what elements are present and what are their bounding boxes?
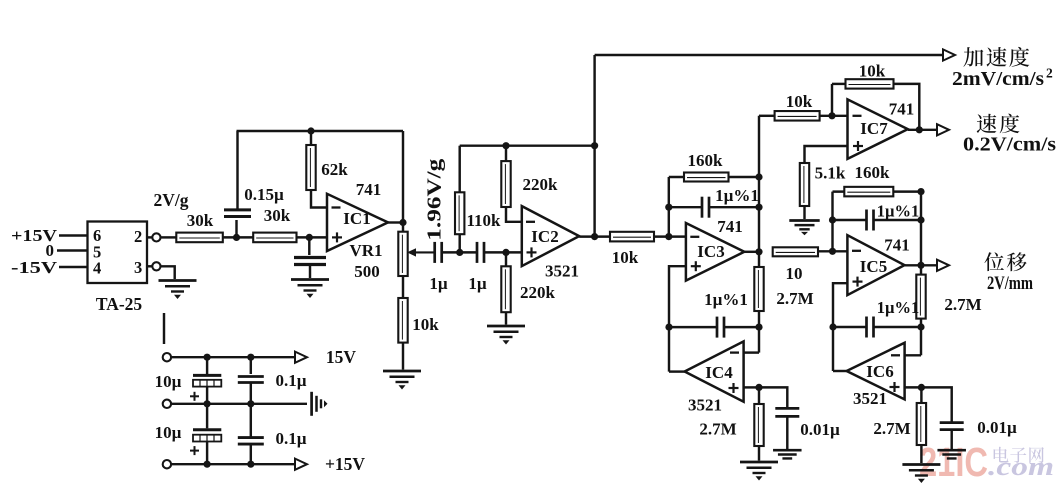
wire to 0.1u bottom bbox=[250, 404, 252, 438]
sensor TA-25 box bbox=[88, 222, 148, 284]
op-amp IC5 bbox=[847, 235, 904, 295]
svg-text:.com: .com bbox=[988, 452, 1054, 481]
node IC2 output junction bbox=[591, 233, 598, 240]
wire cap to ground bbox=[309, 265, 311, 279]
wire IC7 plus to 5.1k bbox=[805, 146, 848, 163]
ground below 2.7M IC6 bbox=[902, 463, 940, 466]
wire to 10u top bbox=[206, 357, 208, 374]
wire node B down to cap bbox=[308, 237, 310, 255]
wire node A up to cap 0.15u bbox=[235, 220, 237, 237]
svg-text:IC6: IC6 bbox=[866, 362, 893, 381]
wire node J to cap 0.01u bbox=[759, 387, 787, 409]
ground below 5.1k bbox=[789, 219, 819, 222]
wire 2.7M to IC4 minus corner bbox=[758, 311, 760, 353]
op-amp IC1 bbox=[327, 194, 388, 251]
acceleration output line bbox=[595, 54, 943, 56]
velocity arrow bbox=[937, 124, 949, 135]
feedback rail IC3 bbox=[669, 176, 759, 178]
vertical bus IC3 bbox=[758, 116, 760, 267]
node 0.1u top junction bbox=[247, 354, 254, 361]
node cap lower left IC5 bbox=[829, 323, 836, 330]
svg-text:+15V: +15V bbox=[325, 454, 365, 474]
svg-text:741: 741 bbox=[356, 180, 382, 199]
resistor 10k feedback IC7 bbox=[846, 79, 894, 88]
capacitor 1u pct lower IC5 bbox=[833, 326, 867, 328]
wire IC4 plus to node J bbox=[744, 386, 759, 388]
capacitor 1u pct upper IC5 bbox=[833, 219, 867, 221]
feedback rail IC5 bbox=[833, 190, 922, 192]
resistor 10k interstage bbox=[610, 232, 654, 242]
capacitor 0.01u IC4 bbox=[775, 407, 799, 410]
resistor 62k bbox=[306, 145, 315, 190]
plus supply arrow bbox=[295, 459, 307, 470]
svg-text:1µ: 1µ bbox=[468, 274, 487, 293]
ground sideways common bbox=[310, 392, 313, 416]
wire 110k to IC2 rail bbox=[458, 146, 460, 193]
svg-text:3: 3 bbox=[134, 258, 142, 277]
ground below 0.01u IC4 bbox=[773, 449, 802, 452]
svg-text:500: 500 bbox=[354, 262, 380, 281]
node IC7 output junction bbox=[916, 126, 923, 133]
svg-text:220k: 220k bbox=[523, 175, 559, 194]
minus supply arrow bbox=[295, 352, 307, 363]
op-amp IC6 bbox=[847, 343, 905, 400]
wire node K up to rail bbox=[831, 192, 833, 252]
wire IC6 minus to bus bbox=[905, 354, 921, 356]
IC5 minus sign bbox=[852, 250, 861, 252]
svg-text:4: 4 bbox=[93, 259, 101, 278]
wire IC2 output up to accel line bbox=[593, 55, 595, 237]
wire 30k to IC1 plus bbox=[297, 236, 328, 238]
wire +15V to pin 6 bbox=[59, 234, 88, 236]
wire 1u to 1u bbox=[442, 251, 477, 253]
node I junction bbox=[755, 324, 762, 331]
wire 10k to ground bbox=[402, 343, 404, 370]
resistor 220k lower bbox=[501, 266, 510, 312]
resistor 30k second bbox=[253, 233, 296, 243]
svg-text:2V/mm: 2V/mm bbox=[987, 273, 1033, 294]
svg-text:2.7M: 2.7M bbox=[944, 295, 981, 314]
IC3 plus sign bbox=[691, 265, 701, 267]
node rail right IC3 bbox=[755, 173, 762, 180]
IC7 plus sign bbox=[853, 145, 863, 147]
svg-text:160k: 160k bbox=[855, 163, 891, 182]
capacitor 0.15u bbox=[224, 208, 251, 211]
wire rail to 220k upper bbox=[505, 146, 507, 161]
capacitor 0.1u bottom bbox=[238, 436, 264, 439]
wire 10k feedback to output bbox=[894, 84, 920, 130]
wire rail to 62k bbox=[310, 131, 312, 145]
terminal pin 2 bbox=[152, 233, 160, 241]
svg-text:10k: 10k bbox=[859, 62, 886, 81]
wire 220k to ground bbox=[505, 312, 507, 324]
wire 0.1u bottom to plus rail bbox=[250, 444, 252, 464]
node B junction bbox=[306, 234, 313, 241]
wire 10u top to mid rail bbox=[206, 387, 208, 404]
IC6 plus sign bbox=[890, 386, 900, 388]
wire 220k upper to IC2 minus bbox=[506, 207, 522, 222]
wire IC4 minus to bus bbox=[744, 351, 759, 353]
svg-text:741: 741 bbox=[717, 217, 743, 236]
svg-text:0.1µ: 0.1µ bbox=[275, 371, 306, 390]
svg-text:0.01µ: 0.01µ bbox=[800, 420, 840, 439]
wire IC6 output to loop bbox=[833, 370, 847, 372]
node H junction bbox=[755, 248, 762, 255]
svg-text:741: 741 bbox=[889, 100, 915, 119]
node rail 220k junction bbox=[502, 142, 509, 149]
wire 62k to IC1 minus bbox=[311, 190, 327, 208]
node mid 0.1u junction bbox=[247, 400, 254, 407]
svg-text:30k: 30k bbox=[187, 211, 214, 230]
svg-text:-15V: -15V bbox=[11, 258, 58, 277]
node G junction bbox=[665, 233, 672, 240]
terminal minus supply bbox=[163, 353, 171, 361]
IC2 minus sign bbox=[526, 221, 535, 223]
resistor 2.7M lower IC6 bbox=[920, 387, 922, 403]
resistor 160k IC5 bbox=[844, 187, 893, 197]
wire pin3 to terminal bbox=[147, 265, 152, 267]
op-amp IC7 bbox=[848, 99, 908, 158]
label jiasudu bbox=[963, 47, 983, 67]
svg-text:2: 2 bbox=[134, 227, 142, 246]
wire node G up to rail bbox=[668, 177, 670, 237]
IC4 minus sign bbox=[730, 351, 739, 353]
resistor 220k upper bbox=[501, 161, 510, 207]
svg-text:IC7: IC7 bbox=[860, 119, 888, 138]
wire output to VR1 bbox=[402, 223, 404, 232]
node plus rail 10u junction bbox=[204, 461, 211, 468]
svg-text:IC3: IC3 bbox=[697, 242, 724, 261]
wire 10u bottom to plus rail bbox=[206, 442, 208, 465]
potentiometer VR1 bbox=[398, 232, 407, 276]
ground below 2.7M IC4 bbox=[740, 461, 778, 464]
IC3 minus sign bbox=[690, 236, 699, 238]
wire 1u to IC2 plus bbox=[484, 251, 522, 253]
acceleration arrow bbox=[943, 49, 955, 60]
svg-text:160k: 160k bbox=[688, 151, 724, 170]
node D junction bbox=[456, 249, 463, 256]
terminal plus supply bbox=[163, 460, 171, 468]
svg-text:10µ: 10µ bbox=[155, 423, 182, 442]
node 62k top junction bbox=[307, 127, 314, 134]
wire output up to rail bbox=[402, 131, 404, 223]
svg-text:10k: 10k bbox=[786, 92, 813, 111]
svg-text:IC2: IC2 bbox=[531, 227, 558, 246]
svg-text:30k: 30k bbox=[264, 206, 291, 225]
IC6 minus sign bbox=[891, 354, 900, 356]
node IC1 output junction bbox=[399, 219, 406, 226]
svg-text:10µ: 10µ bbox=[155, 372, 182, 391]
plus sign 10u top bbox=[190, 395, 199, 397]
wire 2.7M IC6 to ground bbox=[920, 445, 922, 463]
wire IC7 output bbox=[908, 129, 938, 131]
ground IC1 input cap bbox=[291, 278, 329, 281]
wire 10k to IC7 minus bbox=[820, 115, 848, 117]
node cap right IC3 bbox=[755, 204, 762, 211]
resistor 30k first bbox=[176, 233, 223, 243]
ground below 220k bbox=[487, 325, 525, 328]
op-amp IC3 bbox=[686, 223, 744, 281]
svg-text:15V: 15V bbox=[326, 347, 357, 367]
plus supply rail bbox=[171, 463, 296, 465]
node J junction bbox=[755, 384, 762, 391]
wire pin2 to terminal bbox=[147, 236, 152, 238]
wire IC3 output bbox=[744, 251, 759, 253]
capacitor 1u first bbox=[433, 242, 436, 263]
resistor 160k IC3 bbox=[684, 173, 729, 182]
svg-text:2.7M: 2.7M bbox=[699, 420, 736, 439]
svg-text:5.1k: 5.1k bbox=[815, 164, 846, 183]
wire to 10u bottom bbox=[206, 404, 208, 429]
resistor 2.7M upper IC5 bbox=[916, 275, 925, 319]
op-amp IC2 bbox=[522, 206, 579, 266]
wire node E down to 220k bbox=[505, 252, 507, 266]
capacitor at IC1 plus input bbox=[294, 256, 326, 259]
node K junction bbox=[829, 248, 836, 255]
capacitor 1u pct upper IC3 bbox=[701, 197, 704, 218]
resistor 10k into IC7 bbox=[775, 111, 820, 121]
capacitor 1u pct lower IC3 bbox=[669, 326, 717, 328]
svg-text:1µ: 1µ bbox=[429, 274, 448, 293]
svg-text:0.2V/cm/s: 0.2V/cm/s bbox=[963, 135, 1056, 156]
wire to 10k feedback bbox=[832, 83, 846, 85]
IC4 plus sign bbox=[729, 387, 739, 389]
VR1 wiper arrow bbox=[416, 251, 434, 253]
node cap left junction IC3 bbox=[665, 204, 672, 211]
wire 30k to 30k bbox=[223, 236, 253, 238]
feedback rail IC2 bbox=[460, 144, 595, 146]
svg-text:3521: 3521 bbox=[853, 389, 887, 408]
ground below 0.01u IC6 bbox=[937, 449, 966, 452]
node cap left junction IC5 bbox=[829, 216, 836, 223]
svg-text:110k: 110k bbox=[466, 211, 501, 230]
svg-text:220k: 220k bbox=[520, 283, 556, 302]
wire IC6 plus to node L bbox=[905, 386, 922, 388]
IC1 minus sign bbox=[332, 206, 341, 208]
op-amp IC4 bbox=[685, 341, 744, 401]
ground pin3 bbox=[159, 279, 197, 282]
node A junction bbox=[233, 234, 240, 241]
wire to 0.1u top bbox=[250, 357, 252, 374]
svg-text:IC4: IC4 bbox=[705, 363, 733, 382]
svg-text:1µ%1: 1µ%1 bbox=[715, 186, 759, 205]
IC2 plus sign bbox=[527, 251, 537, 253]
svg-text:0.01µ: 0.01µ bbox=[977, 418, 1017, 437]
svg-text:IC1: IC1 bbox=[343, 209, 370, 228]
wire terminal to R 30k bbox=[161, 236, 177, 238]
wire IC3 plus leg bbox=[669, 266, 686, 371]
IC5 plus sign bbox=[853, 281, 863, 283]
capacitor 1u second bbox=[476, 242, 479, 263]
svg-text:10k: 10k bbox=[412, 315, 439, 334]
svg-text:2: 2 bbox=[1046, 66, 1053, 81]
capacitor 10u top bbox=[193, 374, 221, 377]
label weiyi bbox=[984, 252, 1003, 271]
wire 5.1k to ground bbox=[803, 206, 805, 219]
svg-text:3521: 3521 bbox=[545, 262, 579, 281]
node 10u top junction bbox=[204, 354, 211, 361]
wire cap 0.15u to top rail bbox=[236, 131, 238, 210]
terminal pin 3 bbox=[152, 262, 160, 270]
plus sign 10u bottom bbox=[190, 450, 199, 452]
minus supply rail bbox=[171, 356, 296, 358]
svg-text:1.96V/g: 1.96V/g bbox=[425, 158, 446, 240]
wire bus to 10k IC7 bbox=[759, 115, 775, 117]
resistor 2.7M lower IC4 bbox=[758, 387, 760, 404]
node mid 10u junction bbox=[204, 400, 211, 407]
svg-text:0.1µ: 0.1µ bbox=[275, 429, 306, 448]
wire IC1 output bbox=[388, 221, 403, 223]
vertical bus IC5 bbox=[920, 192, 922, 275]
wire 2.7M to IC6 minus corner bbox=[920, 319, 922, 356]
wire IC5 output to arrow bbox=[921, 264, 938, 266]
node rail right IC5 bbox=[917, 188, 924, 195]
svg-text:IC5: IC5 bbox=[860, 257, 887, 276]
resistor 5.1k bbox=[800, 163, 809, 206]
feedback top rail IC1 bbox=[237, 130, 404, 132]
svg-text:2.7M: 2.7M bbox=[873, 419, 910, 438]
label sudu bbox=[977, 114, 997, 133]
wire to cap 1u pct left bbox=[669, 206, 702, 208]
node cap right IC5 bbox=[917, 216, 924, 223]
wire 10k to IC3 minus bbox=[654, 235, 686, 237]
node I2 junction bbox=[917, 323, 924, 330]
node L junction bbox=[918, 384, 925, 391]
node IC5 output junction bbox=[917, 262, 924, 269]
svg-text:741: 741 bbox=[884, 236, 910, 255]
IC1 plus sign bbox=[332, 236, 342, 238]
capacitor 10u bottom bbox=[193, 428, 221, 431]
wire VR1 to 10k bbox=[402, 276, 404, 298]
svg-text:2mV/cm/s: 2mV/cm/s bbox=[952, 69, 1044, 90]
svg-text:2.7M: 2.7M bbox=[776, 289, 813, 308]
wire 2.7M to ground bbox=[758, 446, 760, 461]
wire node D up to 110k bbox=[458, 234, 460, 252]
wire -15V to pin 4 bbox=[59, 266, 88, 268]
svg-text:21IC: 21IC bbox=[919, 439, 988, 485]
wire 0 to pin 5 bbox=[57, 249, 88, 251]
resistor 110k bbox=[455, 192, 464, 234]
svg-text:TA-25: TA-25 bbox=[96, 294, 143, 314]
common rail bbox=[171, 403, 307, 405]
resistor 10 interstage bbox=[773, 247, 818, 256]
node cap lower left junction bbox=[665, 324, 672, 331]
svg-text:3521: 3521 bbox=[688, 396, 722, 415]
svg-text:10k: 10k bbox=[612, 248, 639, 267]
svg-text:1µ%1: 1µ%1 bbox=[877, 298, 920, 317]
wire 0.1u top to mid rail bbox=[250, 383, 252, 404]
resistor 2.7M upper bbox=[754, 267, 763, 311]
node rail right junction bbox=[591, 142, 598, 149]
svg-text:10: 10 bbox=[786, 264, 803, 283]
node M junction bbox=[828, 112, 835, 119]
wire IC5 output bbox=[905, 264, 922, 266]
capacitor 0.1u top bbox=[238, 375, 264, 378]
wire 0.01u to ground bbox=[786, 416, 788, 449]
terminal common supply bbox=[163, 400, 171, 408]
svg-text:VR1: VR1 bbox=[349, 241, 382, 260]
wire IC5 plus leg bbox=[833, 283, 847, 371]
wire 10 to IC5 minus bbox=[818, 250, 847, 252]
ground below 10k bbox=[383, 370, 421, 373]
IC7 minus sign bbox=[853, 115, 862, 117]
node E junction bbox=[502, 249, 509, 256]
watermark dianziwang bbox=[994, 447, 1009, 463]
wire cap to right vertical bbox=[709, 206, 759, 208]
wire 0.01u IC6 to ground bbox=[950, 430, 952, 450]
wire pin3 to ground bbox=[161, 266, 175, 279]
svg-text:1µ%1: 1µ%1 bbox=[877, 202, 920, 221]
displacement arrow bbox=[937, 260, 949, 271]
wire IC4 output to loop bbox=[669, 370, 685, 372]
wire node M up to feedback bbox=[831, 84, 833, 116]
svg-text:62k: 62k bbox=[321, 160, 348, 179]
capacitor 0.01u IC6 bbox=[940, 421, 964, 424]
wire IC2 output bbox=[579, 235, 610, 237]
svg-text:0.15µ: 0.15µ bbox=[244, 185, 284, 204]
wire node L to cap 0.01u IC6 bbox=[921, 387, 951, 423]
svg-text:1µ%1: 1µ%1 bbox=[704, 290, 748, 309]
resistor 10k below VR1 bbox=[398, 298, 407, 343]
node plus rail 0.1u junction bbox=[247, 461, 254, 468]
svg-text:2V/g: 2V/g bbox=[154, 190, 189, 210]
stub wire below TA-25 bbox=[163, 313, 165, 344]
